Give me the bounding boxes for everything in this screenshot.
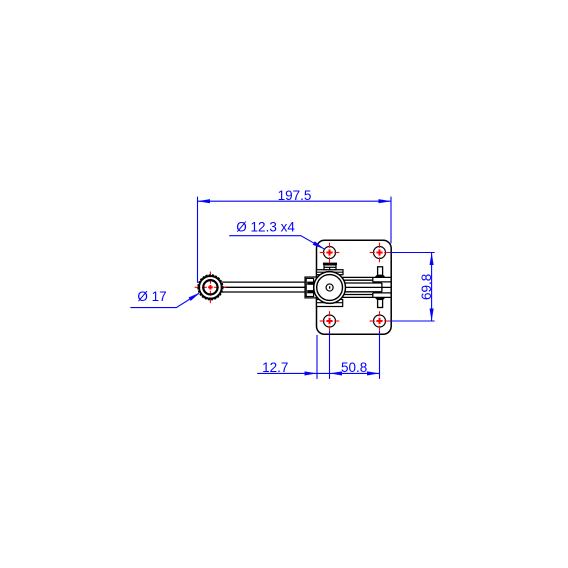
spindle lower nut [375,297,386,299]
handle upper bracket stack [323,263,337,265]
handle arm (3 lines) [222,282,313,292]
dimension 12.7 and 50.8 [257,331,379,379]
hole bottom-left [324,315,336,327]
hole bottom-right [374,315,386,327]
pivot boss outer circle [314,272,346,304]
center marks of holes (red) [320,243,390,331]
pivot boss inner circle [317,275,343,301]
hole top-left [324,247,336,259]
handle knob [197,274,223,300]
svg-text:Ø 17: Ø 17 [137,289,166,304]
pivot pin [326,284,333,291]
mounting plate [317,240,392,334]
spindle lower [378,299,383,307]
svg-text:Ø 12.3 x4: Ø 12.3 x4 [236,220,295,235]
svg-text:69.8: 69.8 [419,274,434,300]
svg-text:50.8: 50.8 [341,360,367,375]
bottom hinge base [317,300,343,307]
dimension 197.5 [198,197,392,283]
dimension 69.8 [389,253,434,322]
spindle upper [378,267,383,276]
spindle upper nut [375,275,386,277]
top hinge base [317,270,344,275]
clamping bar right of pivot [342,277,392,297]
hole top-right [374,247,386,259]
svg-text:197.5: 197.5 [278,188,312,203]
left clevis bracket [305,277,316,298]
svg-text:12.7: 12.7 [262,360,288,375]
